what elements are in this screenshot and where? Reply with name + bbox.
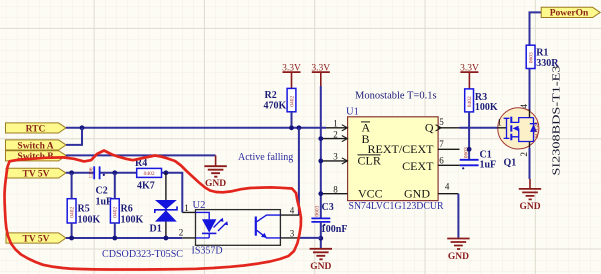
svg-text:C3: C3 [322, 202, 334, 213]
svg-text:8: 8 [333, 185, 338, 195]
svg-text:100K: 100K [78, 215, 101, 226]
svg-text:GND: GND [404, 187, 430, 201]
svg-text:REXT/CEXT: REXT/CEXT [368, 142, 435, 156]
svg-text:4: 4 [445, 181, 450, 191]
svg-text:1uF: 1uF [480, 160, 497, 171]
svg-text:CDSOD323-T05SC: CDSOD323-T05SC [102, 249, 183, 260]
wire PowerOn to R1 [530, 12, 542, 45]
svg-text:100K: 100K [475, 102, 498, 113]
junction D1 top [164, 170, 169, 175]
U1 pin 6 CEXT [402, 155, 460, 172]
junction rail/pin3 [318, 159, 323, 164]
svg-text:1: 1 [184, 203, 189, 213]
C2 labels [96, 185, 113, 207]
junction D1 bottom [164, 236, 169, 241]
svg-text:SOT23: SOT23 [534, 122, 540, 138]
svg-text:GND: GND [519, 202, 540, 212]
U1 pin 1 A [326, 119, 371, 135]
svg-text:Q: Q [425, 121, 434, 135]
wire U2 pin3 to ground node [299, 237, 321, 239]
svg-text:RTC: RTC [26, 124, 46, 134]
svg-text:0402: 0402 [289, 96, 295, 107]
svg-text:0402: 0402 [70, 207, 76, 218]
wire U1 pin4 to ground [457, 194, 459, 239]
resistor R4 [137, 168, 162, 177]
wire U1 Q output to Q1 gate [460, 127, 498, 129]
svg-text:3: 3 [290, 228, 295, 238]
R4 labels [135, 158, 155, 192]
R3 labels [475, 92, 498, 113]
svg-text:0402: 0402 [467, 96, 473, 107]
U1 pin 8 VCC [321, 185, 383, 201]
svg-text:0603: 0603 [314, 205, 320, 216]
port TV 5V upper [6, 168, 66, 179]
junction R6 top [112, 170, 117, 175]
svg-text:D1: D1 [150, 223, 162, 234]
red marker loop [5, 151, 302, 270]
transistor Q1 [497, 104, 540, 157]
port RTC [6, 123, 66, 134]
svg-text:IS357D: IS357D [192, 245, 223, 256]
wire RTC to U1 pin1 [66, 127, 326, 129]
C3 labels [321, 202, 348, 235]
svg-text:0603: 0603 [529, 52, 535, 63]
svg-text:C2: C2 [96, 185, 108, 196]
svg-text:TV 5V: TV 5V [22, 234, 49, 244]
wire TV5V top rail [66, 173, 182, 213]
power 3.3V rail for U1 [311, 63, 330, 86]
svg-text:3: 3 [333, 152, 338, 162]
Q1 part name SI2308BDS-T1-E3 [551, 65, 563, 176]
svg-text:R5: R5 [78, 203, 90, 214]
capacitor C3 [311, 205, 330, 226]
ground below C3 [310, 249, 332, 272]
note Active falling [238, 152, 293, 163]
power 3.3V for R2 [282, 63, 301, 88]
svg-text:0402: 0402 [113, 207, 119, 218]
junction R6 bottom [112, 236, 117, 241]
note Monostable [355, 90, 437, 101]
ground below Q1 [519, 179, 541, 212]
svg-text:0402: 0402 [144, 171, 155, 177]
resistor R1 [526, 45, 535, 68]
R1 labels [536, 48, 559, 70]
wire riser to U2 pin4 [298, 128, 300, 215]
junction R2/A net [289, 125, 294, 130]
svg-text:2: 2 [179, 228, 184, 238]
svg-text:CEXT: CEXT [402, 159, 434, 173]
svg-text:Switch A: Switch A [17, 141, 53, 151]
svg-text:100K: 100K [121, 215, 144, 226]
port Switch A [6, 140, 67, 151]
junction RTC/SwitchA [80, 125, 85, 130]
svg-text:1: 1 [333, 119, 338, 129]
ground on Switch B line [204, 155, 226, 189]
U1 pin 3 CLR [321, 152, 381, 168]
junction C3/U2 pin3/ground [318, 236, 323, 241]
port PowerOn [541, 7, 600, 18]
wire 3.3V rail down to C3 [320, 86, 322, 218]
U1 part name [349, 201, 444, 212]
svg-text:GND: GND [205, 179, 226, 189]
svg-text:GND: GND [310, 262, 331, 272]
junction U2 pin4 riser/A net [297, 125, 302, 130]
D1 part name CDSOD323-T05SC [102, 249, 183, 260]
U1 pin 4 GND [404, 181, 458, 200]
R5 labels [78, 203, 101, 225]
wire Switch B to ground stub [66, 154, 216, 156]
port TV 5V lower [6, 233, 66, 245]
wire R3 to REXT/CEXT node [468, 112, 470, 160]
svg-text:1: 1 [497, 118, 502, 128]
svg-text:2: 2 [333, 129, 338, 139]
U1 pin 2 B [321, 129, 370, 145]
svg-text:Active falling: Active falling [238, 152, 293, 163]
U1 pin 5 Q [425, 117, 460, 134]
junction R5 bottom [69, 236, 74, 241]
U1 pin 7 REXT/CEXT [368, 139, 460, 156]
wire TV5V bottom rail [66, 237, 182, 239]
resistor R3 [465, 89, 474, 112]
svg-text:2: 2 [519, 152, 529, 157]
svg-text:4: 4 [519, 104, 529, 109]
svg-text:4: 4 [290, 205, 295, 215]
U1 designator [346, 107, 359, 118]
svg-text:0603: 0603 [463, 147, 469, 158]
wire Switch A up to RTC net [66, 128, 82, 145]
svg-text:SN74LVC1G123DCUR: SN74LVC1G123DCUR [349, 201, 444, 212]
svg-text:1206: 1206 [88, 167, 94, 178]
wire C3 to ground [320, 222, 322, 249]
svg-text:U1: U1 [346, 107, 359, 118]
R2 labels [264, 90, 287, 111]
svg-text:SI2308BDS-T1-E3: SI2308BDS-T1-E3 [551, 65, 563, 176]
svg-text:R2: R2 [265, 90, 277, 101]
U2 part name IS357D [192, 245, 223, 256]
resistor R5 [67, 173, 76, 238]
svg-text:R6: R6 [121, 203, 133, 214]
svg-text:TV 5V: TV 5V [22, 169, 49, 179]
svg-text:4K7: 4K7 [137, 180, 155, 191]
svg-text:7: 7 [439, 139, 444, 149]
svg-text:PowerOn: PowerOn [550, 9, 589, 19]
svg-text:6: 6 [439, 155, 444, 165]
Q1 label [504, 158, 517, 169]
svg-text:R1: R1 [536, 48, 548, 59]
wire R1 to Q1 drain [529, 69, 531, 118]
capacitor C2 [88, 166, 105, 179]
diode D1 TVS [155, 173, 177, 238]
wire R2 to A net [291, 112, 293, 128]
power 3.3V for R3 [460, 63, 479, 89]
C1 labels [480, 149, 497, 170]
svg-text:100nF: 100nF [321, 224, 348, 235]
svg-text:GND: GND [448, 252, 469, 262]
svg-text:470K: 470K [264, 100, 287, 111]
junction rail/pin8 [318, 191, 323, 196]
junction R3/pin7/C1 [467, 147, 472, 152]
R6 labels [121, 203, 144, 225]
svg-text:Q1: Q1 [504, 158, 517, 169]
resistor R2 [287, 88, 296, 111]
ground below U1 pin4 [447, 239, 469, 262]
resistor R6 [110, 173, 119, 238]
IC U1 body [348, 117, 439, 201]
optocoupler U2 [179, 203, 299, 245]
U2 designator [193, 200, 206, 211]
svg-text:5: 5 [439, 117, 444, 127]
port Switch B [6, 151, 67, 162]
svg-text:Monostable T=0.1s: Monostable T=0.1s [355, 90, 437, 101]
junction R5 top [69, 170, 74, 175]
capacitor C1 [460, 147, 479, 169]
wire Q1 source to ground [529, 148, 531, 179]
svg-text:VCC: VCC [358, 187, 383, 201]
D1 label [150, 223, 162, 234]
junction rail/pin2 [318, 136, 323, 141]
svg-text:U2: U2 [193, 200, 206, 211]
